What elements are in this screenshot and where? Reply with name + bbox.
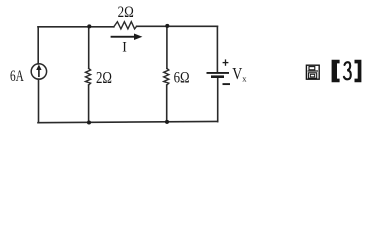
battery minus sign <box>223 83 231 85</box>
resistor R3 6ohm vertical zigzag <box>164 68 169 85</box>
battery V1 long plate <box>207 72 230 74</box>
resistor R1 2ohm horizontal zigzag <box>114 22 137 29</box>
wire top-right segment <box>137 25 218 27</box>
svg-text:I: I <box>122 40 127 56</box>
node B top junction dot <box>165 24 169 28</box>
left bracket of [3] <box>332 60 340 82</box>
wire right branch upper <box>216 26 218 72</box>
wire left branch lower <box>38 79 40 123</box>
battery V1 short plate <box>211 75 224 78</box>
node D bottom junction dot <box>165 120 169 124</box>
svg-text:6Ω: 6Ω <box>174 68 190 86</box>
wire top-left segment <box>38 26 114 28</box>
wire middle branch 2 upper <box>166 26 168 68</box>
resistor R2 2ohm vertical zigzag <box>86 68 91 85</box>
battery plus sign <box>223 59 229 65</box>
current source I1 circle <box>31 64 46 79</box>
node A top junction dot <box>87 24 91 28</box>
wire bottom <box>38 121 218 122</box>
right bracket of [3] <box>355 60 362 82</box>
wire right branch lower <box>217 78 219 122</box>
current arrow I <box>111 34 143 41</box>
CJK character tu (figure) drawn <box>306 65 319 79</box>
wire middle branch 1 upper <box>88 27 90 69</box>
wire left branch upper <box>37 27 39 64</box>
wire middle branch 2 lower <box>166 85 168 122</box>
wire middle branch 1 lower <box>88 85 90 123</box>
current source I1 arrow <box>36 65 41 78</box>
node C bottom junction dot <box>87 120 91 124</box>
label 3 <box>344 62 351 79</box>
svg-text:6A: 6A <box>10 68 24 85</box>
svg-text:x: x <box>242 74 247 84</box>
svg-text:V: V <box>232 64 242 83</box>
svg-text:2Ω: 2Ω <box>118 4 134 21</box>
svg-text:2Ω: 2Ω <box>96 68 112 87</box>
